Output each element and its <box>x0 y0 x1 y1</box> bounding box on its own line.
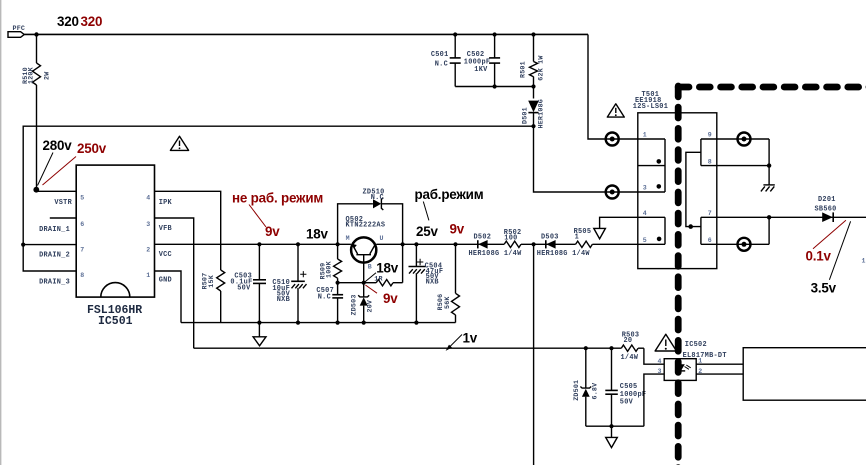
wire: top PFC rail <box>24 33 588 35</box>
wire: pin9 drop to pin8 node <box>768 139 770 166</box>
svg-text:7: 7 <box>80 246 84 253</box>
secondary circuit block (off-page) <box>743 348 866 401</box>
svg-text:2: 2 <box>146 246 150 253</box>
wire: base junction link <box>338 282 364 284</box>
leader раб.режим <box>423 202 429 221</box>
svg-text:320: 320 <box>57 14 79 29</box>
svg-text:3: 3 <box>643 185 647 192</box>
svg-text:18v: 18v <box>306 226 328 241</box>
svg-text:раб.режим: раб.режим <box>415 187 484 202</box>
T501 right winding 9-8 <box>700 139 702 166</box>
svg-text:N.C: N.C <box>318 294 331 302</box>
capacitor C510 10uF 50V NXB (polarized) <box>272 244 306 322</box>
wire: DRAIN_1 stub <box>50 217 76 219</box>
wire: pin6 riser to pin7 <box>768 217 770 244</box>
node: C504 top <box>414 242 418 246</box>
svg-text:9: 9 <box>708 132 712 139</box>
svg-text:120K: 120K <box>27 66 35 84</box>
svg-text:320: 320 <box>81 14 103 29</box>
wire: caps bottom bus <box>455 86 533 88</box>
svg-text:280v: 280v <box>43 138 73 153</box>
ground symbol (open triangle) below C505 <box>606 426 618 447</box>
svg-text:HER108G 1/4W: HER108G 1/4W <box>537 250 591 258</box>
transformer T501 EE1918 12S-LS01 <box>633 91 866 269</box>
node: C504 bottom <box>414 321 418 325</box>
svg-text:1/4W: 1/4W <box>621 354 639 362</box>
svg-text:D503: D503 <box>541 234 559 242</box>
T501 right winding 7-6 <box>700 217 702 244</box>
wire: ZD501/C505 bottom bus <box>586 425 644 427</box>
node: C503 bottom <box>257 321 261 325</box>
svg-text:50V: 50V <box>620 399 634 407</box>
wire: VCC rail right of Q502 <box>376 243 504 245</box>
svg-text:HER108G 1/4W: HER108G 1/4W <box>469 250 523 258</box>
svg-text:VCC: VCC <box>159 251 172 259</box>
svg-text:DRAIN_3: DRAIN_3 <box>39 279 70 287</box>
node: R501 top <box>531 32 535 36</box>
leader 1v with arrow <box>450 335 463 348</box>
wire: VCC rail <box>155 243 351 245</box>
resistor 1R (emitter) <box>364 244 403 286</box>
leader 280v <box>38 153 54 186</box>
svg-text:VFB: VFB <box>159 225 172 233</box>
wire: GND pin down to ground rail <box>155 271 182 323</box>
leader 18v emitter <box>365 273 376 282</box>
svg-text:C501: C501 <box>431 51 449 59</box>
svg-text:6.8V: 6.8V <box>592 383 600 400</box>
chassis ground secondary <box>761 166 775 192</box>
resistor R502 100 <box>504 229 522 248</box>
transistor Q502 KTN2222AS <box>346 216 386 283</box>
svg-text:IC502: IC502 <box>685 341 707 349</box>
IC IC501 FSL106HR body <box>76 165 154 328</box>
diode D502 HER108G 1/4W <box>469 234 523 258</box>
connector point T501 pin1 <box>606 133 619 146</box>
leader 3.5v <box>829 221 850 279</box>
svg-text:4: 4 <box>643 210 647 217</box>
capacitor C503 0.1uF 50V <box>230 244 266 322</box>
node: left bus pin7 <box>21 243 25 247</box>
PFC connector tag <box>8 25 25 37</box>
svg-text:9v: 9v <box>383 291 398 306</box>
node: ZD501 top on 1v rail <box>584 346 588 350</box>
svg-text:DRAIN_1: DRAIN_1 <box>39 226 70 234</box>
diode D503 HER108G 1/4W <box>537 234 591 259</box>
wire: IC502 pin2 to secondary block <box>696 373 743 375</box>
T501 left winding 1-3 <box>664 139 666 192</box>
svg-text:7: 7 <box>708 210 712 217</box>
svg-text:250v: 250v <box>77 141 107 156</box>
capacitor C502 1000pF 1KV <box>464 35 500 87</box>
svg-text:1KV: 1KV <box>474 66 488 74</box>
connector point T501 pin3 <box>606 186 619 199</box>
capacitor C504 47uF 50V NXB (polarized) <box>409 244 444 322</box>
warning triangle near T501 <box>607 104 624 117</box>
zener ZD510 N.C <box>363 189 385 210</box>
wire: ZD510 top wire <box>338 204 373 245</box>
svg-text:15K: 15K <box>208 274 216 287</box>
node: C502 top <box>493 32 497 36</box>
node: C510 bottom <box>296 321 300 325</box>
resistor R510 120K 2W <box>22 35 51 190</box>
svg-text:NXB: NXB <box>426 278 439 286</box>
svg-text:PFC: PFC <box>13 25 26 33</box>
svg-text:1v: 1v <box>463 330 478 345</box>
svg-text:SB560: SB560 <box>815 205 837 213</box>
node: D503 junction (to IC502 feedback) <box>532 242 536 246</box>
svg-text:9v: 9v <box>265 224 280 239</box>
svg-text:20: 20 <box>624 337 633 345</box>
svg-text:6: 6 <box>80 221 84 228</box>
zener ZD501 6.8V <box>573 348 600 426</box>
capacitor C507 N.C <box>316 283 343 323</box>
svg-text:GND: GND <box>159 276 172 284</box>
node: pin8/pin9 junction <box>767 163 771 167</box>
wire: IPK pin to R507 column <box>155 191 221 270</box>
node: C503 top <box>257 242 261 246</box>
capacitor C501 N.C <box>431 35 461 87</box>
svg-text:D201: D201 <box>818 196 836 204</box>
svg-text:20V: 20V <box>367 300 375 313</box>
wire: ground rail <box>181 322 456 324</box>
svg-text:не раб. режим: не раб. режим <box>232 190 323 205</box>
svg-text:4: 4 <box>146 194 150 201</box>
node: C505 bottom <box>609 424 613 428</box>
svg-text:1: 1 <box>146 272 150 279</box>
wire: IC502 pin1 to secondary block <box>696 363 743 365</box>
svg-text:3: 3 <box>146 221 150 228</box>
leader не раб. режим <box>249 205 266 228</box>
wire: upper box wire (VSTR net) <box>23 126 533 244</box>
svg-text:6: 6 <box>708 237 712 244</box>
warning triangle near IC501 <box>170 136 188 150</box>
svg-text:HER108G: HER108G <box>537 99 545 129</box>
page left border <box>0 0 2 465</box>
svg-text:D501: D501 <box>521 107 529 124</box>
svg-text:B: B <box>368 263 372 270</box>
zener ZD503 20V <box>350 283 374 323</box>
node: C507 bottom <box>336 321 340 325</box>
svg-text:0.1v: 0.1v <box>806 248 832 263</box>
node: PFC/R510 junction <box>34 32 38 36</box>
svg-text:KTN2222AS: KTN2222AS <box>346 222 386 230</box>
T501 left winding 4-5 <box>664 217 666 244</box>
svg-text:62K 1W: 62K 1W <box>537 55 545 81</box>
wire: feedback vertical to bottom <box>533 244 535 465</box>
svg-text:N.C: N.C <box>435 61 448 69</box>
node: Q502 base junction <box>362 281 366 285</box>
resistor R507 15K <box>202 270 225 323</box>
wire: DRAIN_2 pin wire <box>23 244 76 246</box>
svg-text:100K: 100K <box>326 260 334 278</box>
node: VSTR node <box>33 187 39 193</box>
svg-text:50V: 50V <box>237 285 251 293</box>
diode D201 SB560 <box>815 196 837 222</box>
wire: VSTR net down to T501 pin3 <box>534 126 666 192</box>
resistor R501 62K 1W <box>520 35 546 99</box>
svg-text:ZD501: ZD501 <box>573 380 581 401</box>
leader 0.1v <box>813 220 846 249</box>
node: R509 bottom junction <box>336 281 340 285</box>
svg-text:25v: 25v <box>416 224 438 239</box>
ground symbol (open triangle) below C503 <box>253 323 266 346</box>
optocoupler IC502 EL817MB-DT <box>658 341 727 381</box>
node: right column rail crossing <box>401 242 405 246</box>
net arrow at T501 pin4 <box>594 217 665 238</box>
connector point T501 pin6 <box>738 238 751 251</box>
svg-text:8: 8 <box>708 158 712 165</box>
svg-text:U: U <box>380 235 384 242</box>
svg-text:VSTR: VSTR <box>54 199 72 207</box>
svg-text:D502: D502 <box>474 234 492 242</box>
node: C502 bottom <box>493 84 497 88</box>
svg-text:1: 1 <box>862 258 866 265</box>
resistor R505 1 <box>574 228 593 248</box>
node: R501 bottom / caps bus <box>531 84 535 88</box>
leader 9v emitter <box>365 285 377 293</box>
svg-text:8: 8 <box>80 272 84 279</box>
svg-text:1: 1 <box>643 132 647 139</box>
svg-text:1R: 1R <box>374 276 382 284</box>
svg-text:9v: 9v <box>450 222 465 237</box>
svg-text:100: 100 <box>504 235 517 243</box>
resistor R506 56K <box>437 244 460 322</box>
svg-text:EL817MB-DT: EL817MB-DT <box>683 352 727 360</box>
wire: VSTR pin wire <box>37 190 77 192</box>
wire: R503 to IC502 pin4 <box>644 348 664 364</box>
node: D501 bottom / VSTR net <box>531 124 535 128</box>
leader 250v <box>43 157 77 186</box>
node: C505 top on 1v rail <box>609 346 613 350</box>
wire: left bus lower part <box>23 245 76 271</box>
diode D501 HER108G <box>521 99 545 129</box>
wire: 1v rail <box>194 347 622 349</box>
svg-text:IPK: IPK <box>159 199 173 207</box>
T501 winding tap link <box>686 152 701 226</box>
svg-text:DRAIN_2: DRAIN_2 <box>39 252 70 260</box>
svg-text:N.C: N.C <box>371 194 384 202</box>
svg-text:56K: 56K <box>444 296 452 309</box>
connector point T501 pin9 <box>738 133 751 146</box>
node: pin7 junction <box>767 215 771 219</box>
wire: top rail right drop to T501 pin1 <box>588 35 665 140</box>
node: C501 top <box>453 32 457 36</box>
svg-text:3.5v: 3.5v <box>811 280 837 295</box>
svg-text:NXB: NXB <box>277 296 290 304</box>
svg-text:C505: C505 <box>620 383 638 391</box>
svg-text:3: 3 <box>658 368 662 375</box>
svg-text:R501: R501 <box>520 61 528 78</box>
isolation barrier dashed horizontal <box>678 84 866 91</box>
node: R506 top <box>453 242 457 246</box>
svg-text:IC501: IC501 <box>98 315 133 328</box>
isolation barrier dashed vertical <box>675 86 682 465</box>
svg-text:12S-LS01: 12S-LS01 <box>633 103 668 111</box>
svg-text:5: 5 <box>643 237 647 244</box>
svg-text:4: 4 <box>658 358 662 365</box>
svg-text:M: M <box>346 235 350 242</box>
node: C510 top <box>296 242 300 246</box>
warning triangle near IC502 <box>655 334 676 351</box>
T501 outer box <box>638 113 717 269</box>
node: left column rail crossing <box>336 242 340 246</box>
capacitor C505 1000pF 50V <box>605 348 646 426</box>
wire: VFB pin down to 1v rail <box>155 218 194 348</box>
svg-text:18v: 18v <box>376 261 398 276</box>
resistor R509 100K <box>319 244 341 282</box>
resistor R503 20 1/4W <box>621 331 644 362</box>
wire: bottom bus to IC502 pin3 <box>644 374 664 426</box>
node: ZD503 bottom <box>362 321 366 325</box>
svg-text:ZD503: ZD503 <box>350 294 358 315</box>
svg-text:1: 1 <box>575 234 579 242</box>
svg-text:2W: 2W <box>43 71 51 80</box>
svg-text:5: 5 <box>80 194 84 201</box>
